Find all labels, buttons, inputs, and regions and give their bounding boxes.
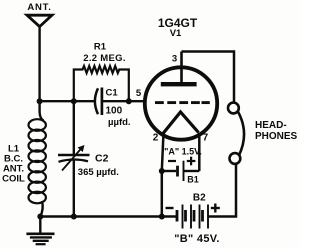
svg-text:PHONES: PHONES — [255, 131, 298, 142]
wire C1 to tube pin5 — [102, 100, 147, 102]
tube plate bar — [161, 82, 197, 86]
tube grid dashes — [155, 101, 210, 104]
svg-text:C2: C2 — [95, 152, 109, 164]
tube V1 circle — [145, 67, 217, 139]
svg-text:3: 3 — [172, 54, 177, 65]
svg-text:V1: V1 — [170, 28, 182, 39]
resistor R1 — [74, 66, 129, 101]
wire pin3 to headphones top — [182, 52, 235, 104]
label B1 minus — [168, 160, 176, 162]
svg-text:COIL: COIL — [2, 174, 25, 185]
wire top bus left (antenna to C1) — [40, 100, 95, 102]
node C2 bottom junction — [71, 214, 77, 220]
capacitor C1 — [95, 88, 98, 114]
svg-text:7: 7 — [203, 133, 209, 144]
battery B1 — [162, 170, 176, 172]
svg-text:2: 2 — [153, 133, 159, 144]
svg-text:100: 100 — [106, 106, 123, 117]
svg-text:R1: R1 — [94, 42, 107, 53]
wire bottom bus — [40, 215, 176, 217]
svg-text:"B" 45V.: "B" 45V. — [174, 233, 219, 245]
tube filament — [163, 112, 199, 134]
ground — [26, 217, 54, 245]
svg-text:B2: B2 — [193, 193, 206, 204]
svg-text:HEAD-: HEAD- — [255, 120, 287, 131]
wire pin7 lead down — [198, 133, 201, 172]
svg-text:µµfd.: µµfd. — [108, 117, 131, 128]
node B1/B2 junction — [159, 214, 165, 220]
wire plate lead pin3 — [180, 52, 183, 84]
svg-text:365 µµfd.: 365 µµfd. — [78, 167, 119, 178]
coil L1 — [29, 101, 46, 216]
svg-text:ANT.: ANT. — [27, 2, 51, 13]
label B2 plus — [211, 204, 220, 213]
svg-text:"A" 1.5V.: "A" 1.5V. — [164, 146, 202, 156]
svg-text:5: 5 — [136, 88, 142, 99]
svg-text:2.2 MEG.: 2.2 MEG. — [83, 53, 126, 64]
label B2 minus — [166, 207, 174, 209]
node B1 junction — [159, 168, 165, 174]
node R1/C2 junction — [71, 98, 77, 104]
label B1 plus — [187, 157, 196, 166]
node antenna junction — [37, 98, 43, 104]
wire antenna lead — [38, 27, 40, 101]
node ground junction — [37, 214, 43, 220]
wire pin2 lead down — [162, 133, 164, 217]
antenna symbol — [27, 15, 52, 26]
node R1 right junction — [126, 98, 132, 104]
headphones — [228, 103, 239, 114]
C2 arrow — [62, 147, 83, 171]
capacitor C2 variable — [73, 101, 75, 154]
svg-text:B1: B1 — [187, 175, 199, 185]
battery B2 — [177, 205, 208, 229]
svg-text:C1: C1 — [106, 88, 119, 99]
wire B2 to headphones bottom — [208, 164, 236, 217]
